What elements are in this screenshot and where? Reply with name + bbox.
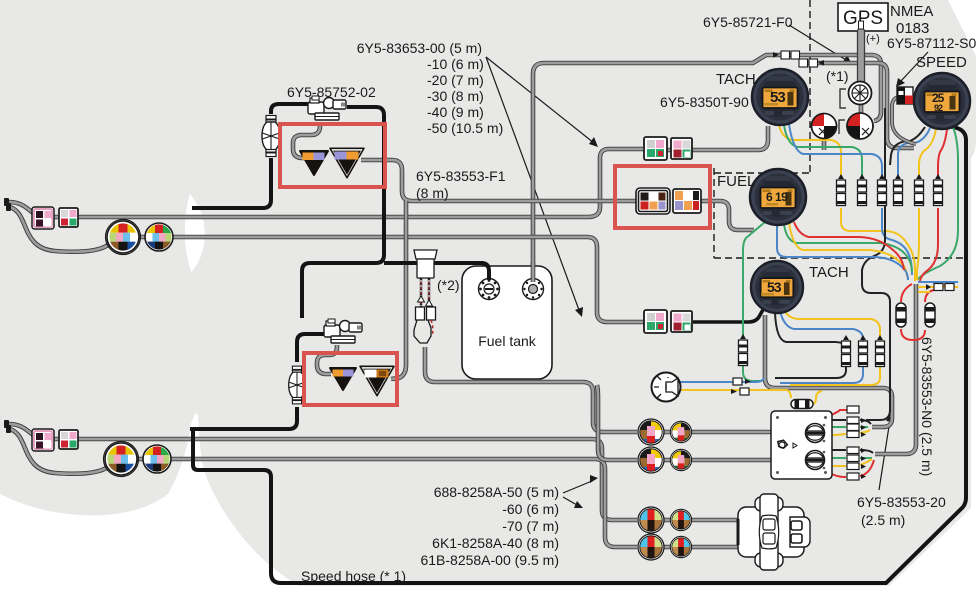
fuel pump unit 2 bbox=[324, 319, 362, 343]
fuel hose engine1 to primer bulb bbox=[192, 158, 271, 208]
helm connector row1 pair bbox=[638, 419, 692, 445]
wire row2 to switch panel bbox=[663, 458, 772, 463]
svg-text:(*2): (*2) bbox=[437, 277, 460, 293]
square connector TACH2 pair A bbox=[644, 310, 667, 333]
svg-text:TACH: TACH bbox=[809, 264, 849, 281]
gauge FUEL bbox=[750, 169, 806, 225]
helm connector row4 pair bbox=[638, 534, 692, 560]
hull cutout white sliver (mid left) bbox=[0, 0, 1, 1]
svg-text:6K1-8258A-40 (8 m): 6K1-8258A-40 (8 m) bbox=[432, 535, 559, 551]
wire yellow inline1 down to FUEL bundle bbox=[841, 208, 915, 281]
wire pump1 to triangle T1 bbox=[293, 122, 320, 158]
leader arrow from harness label to lower wire bbox=[486, 57, 583, 317]
dashed helm zone bottom bbox=[714, 257, 968, 259]
leader arrow 83553-20 label bbox=[879, 413, 894, 490]
triangle connector box1 left bbox=[300, 151, 328, 175]
square connector engine1 B bbox=[59, 208, 78, 227]
svg-text:NMEA: NMEA bbox=[890, 3, 933, 20]
svg-text:61B-8258A-00 (9.5 m): 61B-8258A-00 (9.5 m) bbox=[420, 552, 559, 568]
svg-text:Fuel tank: Fuel tank bbox=[478, 333, 537, 349]
svg-text:6Y5-83653-00 (5 m): 6Y5-83653-00 (5 m) bbox=[357, 40, 482, 56]
wire NMEA spur from inline plug bbox=[808, 63, 914, 148]
rect connector FUEL A bbox=[636, 188, 670, 214]
fuel hose bulb2 down to engine2 bbox=[190, 407, 297, 429]
wire yellow inline5 down bbox=[917, 208, 919, 280]
wire green FUEL gauge to junction bbox=[784, 224, 912, 272]
primer bulb engine1 bbox=[262, 116, 280, 157]
wire connector stub bbox=[822, 139, 827, 150]
wire blue TACH2 to bullets bbox=[780, 311, 863, 342]
svg-text:53: 53 bbox=[767, 279, 782, 295]
svg-text:(2.5 m): (2.5 m) bbox=[861, 512, 905, 528]
leader arrow from harness label to upper junction bbox=[486, 57, 598, 147]
square connector TACH2 pair B bbox=[671, 311, 692, 332]
red box 1 bbox=[280, 124, 385, 187]
inline connector green drop bbox=[739, 334, 748, 366]
wire blue light to harness bbox=[680, 378, 764, 382]
switch group1 terminals bbox=[847, 406, 866, 438]
svg-text:-40 (9 m): -40 (9 m) bbox=[427, 104, 484, 120]
svg-text:6Y5-85752-02: 6Y5-85752-02 bbox=[287, 84, 376, 100]
wire red SPEED to inline6 bbox=[938, 129, 947, 177]
svg-text:-30 (8 m): -30 (8 m) bbox=[427, 88, 484, 104]
wire yellow switch group1 bbox=[831, 430, 870, 435]
wire blue bullets drop to bundle bbox=[780, 364, 863, 383]
wire black SPEED down bbox=[890, 127, 925, 165]
helm connector row3 pair bbox=[638, 507, 692, 533]
wire black TACH2 to bullets bbox=[775, 312, 846, 346]
wire yellow light to harness bbox=[678, 390, 791, 398]
junction bullet pair right bbox=[926, 284, 954, 291]
inline connector pair 5 bbox=[915, 174, 924, 206]
leader arrow GPS cable label bbox=[789, 25, 852, 64]
inline connector TACH2-3 bbox=[876, 335, 885, 367]
triangle connector box3 left bbox=[330, 368, 356, 390]
svg-text:TACH: TACH bbox=[716, 71, 756, 88]
svg-text:-10 (6 m): -10 (6 m) bbox=[427, 56, 484, 72]
svg-text:-50 (10.5 m): -50 (10.5 m) bbox=[427, 120, 503, 136]
wire engine1 harness A bbox=[8, 149, 643, 217]
round connector engine2 small bbox=[143, 445, 171, 473]
wire blue FUEL gauge to junction bbox=[777, 226, 908, 280]
wire green SPEED right side down to junction bbox=[917, 127, 958, 280]
dashed FUEL box left bbox=[713, 168, 715, 258]
square connector TACH1 pair B bbox=[671, 138, 692, 159]
fuel hose overlay into tank fitting bbox=[480, 263, 489, 280]
(*2) fuel pickup sensor assembly bbox=[414, 250, 437, 343]
square connector TACH1 pair A bbox=[644, 137, 667, 160]
primer bulb engine2 bbox=[289, 366, 306, 404]
round connector engine2 big bbox=[104, 442, 139, 477]
wire yellow SPEED to inline5 bbox=[919, 129, 936, 177]
fuse capsule vertical B bbox=[925, 303, 935, 327]
svg-text:6Y5-85721-F0: 6Y5-85721-F0 bbox=[703, 14, 793, 30]
GPS antenna mast bbox=[858, 21, 865, 83]
triangle connector box1 right bbox=[330, 148, 364, 177]
wire F1 branch to lower sender bbox=[391, 201, 406, 379]
wire black inline4 down to junction bbox=[862, 108, 890, 420]
round connector red/white B bbox=[839, 113, 873, 139]
wire GPS antenna stub bbox=[859, 104, 864, 114]
wire black switch group2 bbox=[831, 450, 873, 453]
svg-text:6Y5-83553-N0 (2.5 m): 6Y5-83553-N0 (2.5 m) bbox=[919, 337, 935, 476]
fuel tank bbox=[462, 266, 552, 379]
wire blue SPEED to inline4 bbox=[898, 128, 930, 177]
gauge TACH1 bbox=[752, 69, 808, 125]
wire blue junction stub right bbox=[918, 281, 958, 283]
wire 6Y5-83553-F1 extension bbox=[361, 160, 637, 201]
square connector engine2 B bbox=[59, 430, 78, 449]
round connector red/white A bbox=[812, 114, 837, 139]
wire black bullets drop to bundle bbox=[775, 364, 846, 378]
NMEA speed connector bbox=[897, 87, 913, 104]
svg-text:(8 m): (8 m) bbox=[416, 185, 449, 201]
wire blue TACH1 to inline3 bbox=[789, 124, 882, 177]
leader arrow 87112 label bbox=[896, 52, 928, 87]
inline connector TACH2-2 bbox=[859, 335, 868, 367]
inline connector pair 3 bbox=[878, 174, 887, 206]
fuel pump unit 1 bbox=[308, 96, 346, 120]
inline connector TACH2-1 bbox=[842, 335, 851, 367]
wire yellow TACH2 to bullets bbox=[784, 310, 880, 338]
wire engine2 harness B bbox=[10, 429, 637, 547]
fuel hose pump2 to bulb2 bbox=[297, 334, 325, 362]
(*1) compass connector bbox=[840, 82, 872, 109]
hull cutout white teardrop (upper left) bbox=[185, 194, 205, 272]
round connector engine1 small bbox=[145, 223, 173, 251]
svg-text:Speed hose (* 1): Speed hose (* 1) bbox=[301, 568, 406, 584]
wire engine1 harness B bbox=[10, 207, 645, 322]
svg-text:(+): (+) bbox=[866, 33, 880, 45]
svg-text:FUEL: FUEL bbox=[717, 173, 755, 190]
wire harness N0 upper run bbox=[765, 315, 892, 427]
svg-text:6Y5-83553-F1: 6Y5-83553-F1 bbox=[416, 168, 506, 184]
svg-text:(*1): (*1) bbox=[826, 68, 849, 84]
wire red FUEL gauge short bbox=[794, 222, 904, 270]
fuse capsule vertical A bbox=[896, 303, 906, 327]
switch group2 terminals bbox=[847, 447, 866, 480]
svg-text:-70 (7 m): -70 (7 m) bbox=[502, 518, 559, 534]
wire red junction loop through fuses bbox=[901, 284, 946, 340]
wire green switch group1 bbox=[831, 426, 868, 428]
wire yellow switch group2 bbox=[831, 459, 872, 466]
rect connector FUEL B bbox=[673, 189, 701, 213]
dashed FUEL box top bbox=[714, 172, 810, 174]
wire engine2 harness A bbox=[8, 424, 637, 520]
wire harness N0 lower run bbox=[875, 284, 916, 454]
triangle connector box3 right bbox=[360, 366, 394, 395]
light feed inline plugs bbox=[731, 378, 751, 395]
svg-text:92: 92 bbox=[934, 103, 943, 113]
fuel hose bulb1 to pump1 bbox=[271, 104, 309, 114]
svg-text:-60 (6 m): -60 (6 m) bbox=[502, 501, 559, 517]
wire pump2 to triangle T3 bbox=[317, 345, 337, 374]
fuel tank fitting right (sender) bbox=[523, 279, 544, 300]
red box 3 bbox=[304, 353, 397, 405]
wire green switch group2 bbox=[831, 457, 872, 459]
GPS box bbox=[838, 3, 888, 31]
wire yellow junction stub right bbox=[918, 287, 958, 292]
fuel tank fitting left bbox=[479, 279, 500, 300]
inline plug on top harness wires bbox=[773, 51, 824, 67]
NMEA S0 cable bbox=[892, 97, 916, 144]
inline connector pair 2 bbox=[858, 174, 867, 206]
inline connector pair 4 bbox=[894, 174, 903, 206]
wire green FUEL to TACH2 drop bbox=[743, 222, 765, 336]
wire red inline6 down to junction bbox=[920, 208, 938, 281]
dashed boundary line vertical (*1 zone) bbox=[809, 0, 811, 173]
wire yellow bullets drop to bundle bbox=[790, 364, 880, 385]
wire red switch group1 bbox=[829, 410, 847, 416]
sender wire overlay into tank fitting bbox=[531, 262, 536, 282]
black wire squares to TACH2 bbox=[693, 308, 764, 322]
wire yellow TACH1 to inline1 bbox=[779, 125, 841, 177]
leader arrow 8258A labels to riser wires bbox=[563, 475, 598, 493]
engine wire end caps bbox=[4, 198, 11, 433]
inline connector pair 6 bbox=[934, 174, 943, 206]
wire yellow FUEL gauge to junction bbox=[789, 223, 907, 277]
wire FUEL gauge pigtail bbox=[696, 201, 754, 230]
inline connector pair 1 (top cluster) bbox=[837, 174, 846, 206]
svg-text:SPEED: SPEED bbox=[916, 54, 967, 71]
wire to row2 connector bbox=[597, 385, 637, 460]
gauge TACH2 bbox=[751, 261, 803, 313]
wire yellow fuse loop up to harness bbox=[812, 391, 822, 404]
wire black switch group1 bbox=[831, 420, 871, 424]
round connector engine1 big bbox=[106, 220, 141, 255]
square connector engine1 A bbox=[32, 207, 54, 229]
fuel hose pump1 down to junction bbox=[302, 107, 384, 318]
wire blue inline3 down to junction bbox=[882, 208, 912, 275]
wire green drop lower bbox=[743, 366, 762, 381]
wire row3 to pump unit bbox=[663, 518, 740, 523]
svg-text:6 19: 6 19 bbox=[766, 190, 788, 204]
svg-text:-20 (7 m): -20 (7 m) bbox=[427, 72, 484, 88]
svg-text:6Y5-8350T-90: 6Y5-8350T-90 bbox=[660, 94, 749, 110]
red box 2 bbox=[615, 166, 710, 228]
speed hose bbox=[193, 126, 966, 583]
helm connector row2 pair bbox=[638, 447, 692, 473]
wire row1 to switch panel bbox=[663, 430, 772, 435]
gauge SPEED bbox=[914, 73, 970, 129]
wire red switch group2 bbox=[829, 460, 874, 477]
svg-text:688-8258A-50 (5 m): 688-8258A-50 (5 m) bbox=[434, 484, 559, 500]
fuse capsule yellow loop bbox=[791, 400, 813, 409]
svg-text:6Y5-87112-S0: 6Y5-87112-S0 bbox=[887, 35, 976, 51]
square connector engine2 A bbox=[32, 429, 54, 451]
wire fuel tank sender bbox=[533, 55, 881, 284]
wire row4 to pump unit bbox=[663, 545, 740, 550]
fuel hose junction to tank bbox=[384, 263, 489, 283]
wire fuel sensor drop bbox=[425, 347, 637, 432]
wire TACH1 pigtail bbox=[667, 126, 768, 150]
svg-text:6Y5-83553-20: 6Y5-83553-20 bbox=[857, 494, 946, 510]
wire green TACH1 to inline2 bbox=[784, 125, 862, 177]
